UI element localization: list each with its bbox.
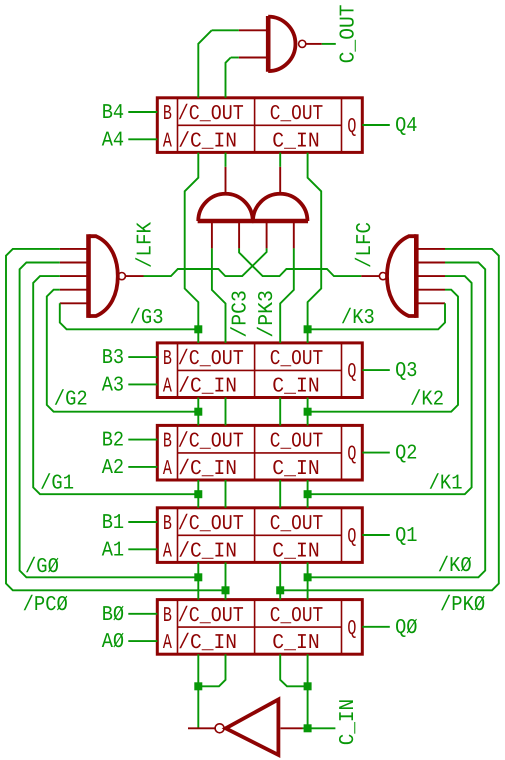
right AND gate U7B input pin a [266, 221, 268, 248]
svg-text:/G1: /G1 [40, 473, 74, 496]
wire U4 /C_IN-a to U7A out [225, 153, 227, 167]
wire Q1 output [362, 534, 390, 536]
wire U0 C_IN-a down to inverter in [307, 654, 309, 728]
junction node 10 [276, 586, 284, 594]
wire A4 input [128, 138, 157, 140]
wire /LFC in4 / K2 rail [308, 290, 458, 412]
NAND gate U8 /LFK (5-input, faces right) [89, 236, 118, 316]
svg-text:Q1: Q1 [395, 525, 417, 548]
wire /LFC in2 / K0 rail [308, 263, 486, 578]
svg-text:A1: A1 [102, 539, 124, 562]
wire Q0 output [362, 626, 390, 628]
wire A3 input [128, 383, 157, 385]
svg-text:A: A [163, 632, 172, 655]
svg-text:C_OUT: C_OUT [270, 513, 323, 536]
junction node 1 [194, 325, 202, 333]
junction node 4 [304, 408, 312, 416]
wire B0 input [128, 613, 157, 615]
full-adder slice U3 (bit 3) body [157, 343, 362, 398]
wire A0 input [128, 640, 157, 642]
junction node 2 [304, 325, 312, 333]
U6 input pin 2 [239, 57, 268, 59]
U9 input pin 5 [416, 302, 445, 304]
NAND gate U6 (C_OUT driver) [268, 17, 295, 72]
wire /LFK out to U7B in-a (crossing) [144, 248, 267, 276]
wire U6 in1 [212, 29, 239, 31]
svg-text:/C_OUT: /C_OUT [178, 431, 244, 454]
svg-text:B: B [163, 348, 172, 371]
wire carry bus vertical [197, 562, 199, 599]
U8 output pin [125, 275, 143, 277]
wire U6 in2 [231, 57, 239, 59]
svg-text:Q2: Q2 [395, 443, 417, 466]
wire /LFC in1 / PK0 rail [280, 249, 499, 590]
wire /PC net U4-U3 (jogged) [185, 153, 199, 343]
wire /LFC out to U7A in-b (crossing) [239, 248, 361, 276]
wire B1 input [128, 521, 157, 523]
svg-text:/LFC: /LFC [354, 222, 377, 268]
wire U6 in2 down [226, 58, 231, 98]
wire carry bus vertical [279, 480, 281, 508]
svg-text:A: A [163, 540, 172, 563]
svg-text:/C_IN: /C_IN [178, 540, 237, 563]
U8 input pin 2 [60, 262, 89, 264]
svg-text:B: B [163, 103, 172, 126]
svg-text:/C_IN: /C_IN [178, 458, 237, 481]
full-adder slice U1 (bit 1) body [157, 508, 362, 563]
junction node 9 [222, 586, 230, 594]
svg-text:/KØ: /KØ [438, 555, 472, 578]
junction node 7 [194, 573, 202, 581]
junction node 12 [304, 682, 312, 690]
U8 input pin 1 [60, 248, 89, 250]
svg-text:A4: A4 [102, 129, 124, 152]
wire carry bus vertical [197, 398, 199, 426]
wire /LFK in3 / G1 rail [33, 276, 198, 494]
full-adder slice U2 (bit 2) body [157, 425, 362, 480]
wire /LFC in5 / K3 rail [308, 303, 445, 329]
svg-text:/G3: /G3 [130, 307, 164, 330]
junction node 8 [304, 573, 312, 581]
wire U0 /C_IN-b join [198, 654, 225, 686]
svg-text:C_OUT: C_OUT [270, 103, 323, 126]
wire carry bus vertical [279, 562, 281, 599]
svg-text:C_OUT: C_OUT [270, 605, 323, 628]
wire inverter input / C_IN [303, 727, 336, 729]
U10 output pin [188, 727, 216, 729]
svg-text:B: B [163, 513, 172, 536]
junction node 11 [194, 682, 202, 690]
wire /LFK in5 / G3 rail [60, 303, 199, 329]
svg-text:/PCØ: /PCØ [23, 594, 68, 617]
svg-text:C_IN: C_IN [272, 458, 319, 481]
U10 input pin [281, 727, 303, 729]
svg-text:/C_IN: /C_IN [178, 130, 237, 153]
junction node 13 [304, 724, 312, 732]
U9 input pin 3 [416, 275, 445, 277]
svg-text:B4: B4 [102, 102, 124, 125]
U9 output pin [361, 275, 379, 277]
svg-text:A: A [163, 130, 172, 153]
wire U7B in-b to U3 top [280, 248, 294, 343]
left AND gate U7A input pin b [238, 221, 240, 248]
wire carry bus vertical [279, 398, 281, 426]
svg-text:B3: B3 [102, 347, 124, 370]
svg-text:C_OUT: C_OUT [270, 348, 323, 371]
U9 input pin 1 [416, 248, 445, 250]
wire A2 input [128, 466, 157, 468]
left AND gate U7A output pin [225, 167, 227, 194]
svg-text:/PKØ: /PKØ [440, 594, 485, 617]
svg-text:A: A [163, 375, 172, 398]
wire carry bus vertical [197, 480, 199, 508]
svg-text:/G2: /G2 [54, 389, 88, 412]
left AND gate U7A (points up) [198, 194, 253, 221]
full-adder slice U4 (bit 4) body [157, 98, 362, 153]
wire /LFC in3 / K1 rail [308, 276, 472, 494]
U8 input pin 3 [60, 275, 89, 277]
junction node 5 [194, 490, 202, 498]
svg-text:/C_OUT: /C_OUT [178, 103, 244, 126]
svg-text:Q: Q [347, 444, 356, 467]
svg-text:A3: A3 [102, 374, 124, 397]
wire carry bus vertical [225, 398, 227, 426]
U8 input pin 5 [60, 302, 89, 304]
svg-text:Q: Q [347, 526, 356, 549]
svg-text:C_IN: C_IN [272, 540, 319, 563]
svg-text:A2: A2 [102, 457, 124, 480]
svg-text:A: A [163, 458, 172, 481]
svg-text:Q: Q [347, 618, 356, 641]
wire /LFK in1 / PC0 rail [6, 249, 226, 590]
svg-text:C_IN: C_IN [272, 632, 319, 655]
full-adder slice U0 (bit 0) body [157, 600, 362, 655]
wire /PK net U4-U3 (jogged) [308, 153, 322, 343]
wire carry bus vertical [307, 398, 309, 426]
wire carry bus vertical [307, 480, 309, 508]
svg-text:/C_OUT: /C_OUT [178, 513, 244, 536]
svg-text:B1: B1 [102, 512, 124, 535]
svg-text:BØ: BØ [102, 604, 124, 627]
svg-text:C_IN: C_IN [272, 130, 319, 153]
svg-text:C_OUT: C_OUT [338, 4, 361, 63]
svg-text:Q3: Q3 [395, 360, 417, 383]
wire Q2 output [362, 452, 390, 454]
wire U4 C_IN-a to U7B out [279, 153, 281, 167]
U9 input pin 4 [416, 289, 445, 291]
wire B3 input [128, 356, 157, 358]
svg-text:Q4: Q4 [395, 115, 417, 138]
U9 input pin 2 [416, 262, 445, 264]
wire U0 /C_IN-a down to inverter out [197, 654, 199, 728]
right AND gate U7B input pin b [293, 221, 295, 248]
wire carry bus vertical [225, 562, 227, 599]
svg-text:C_IN: C_IN [272, 375, 319, 398]
wire U6 in1 down to U4 /C_OUT [198, 30, 211, 98]
svg-text:/C_IN: /C_IN [178, 632, 237, 655]
wire /LFK in4 / G2 rail [47, 290, 199, 412]
svg-text:/GØ: /GØ [25, 556, 59, 579]
right AND gate U7B (points up) [253, 194, 308, 221]
svg-text:C_IN: C_IN [337, 699, 360, 746]
svg-text:/PC3: /PC3 [230, 290, 253, 338]
svg-text:Q: Q [347, 361, 356, 384]
wire U0 C_IN-b join [280, 654, 307, 686]
junction node 6 [304, 490, 312, 498]
junction node 3 [194, 408, 202, 416]
wire /LFK in2 / G0 rail [20, 263, 199, 578]
wire U6 out to C_OUT [322, 43, 336, 45]
svg-text:/PK3: /PK3 [256, 290, 279, 338]
right AND gate U7B output pin [279, 167, 281, 194]
svg-text:AØ: AØ [102, 631, 124, 654]
U6 output pin [306, 43, 322, 45]
wire U7A in-a to U3 top [212, 248, 226, 343]
svg-text:/K2: /K2 [410, 389, 444, 412]
wire Q3 output [362, 369, 390, 371]
inverter U10 (faces left) [226, 699, 279, 755]
svg-text:/C_OUT: /C_OUT [178, 348, 244, 371]
left AND gate U7A input pin a [211, 221, 213, 248]
wire B4 input [128, 111, 157, 113]
svg-text:QØ: QØ [395, 617, 417, 640]
NAND gate U9 /LFC (5-input, faces left) [387, 236, 416, 316]
wire A1 input [128, 548, 157, 550]
svg-text:/C_OUT: /C_OUT [178, 605, 244, 628]
svg-text:B2: B2 [102, 430, 124, 453]
svg-text:C_OUT: C_OUT [270, 431, 323, 454]
U8 input pin 4 [60, 289, 89, 291]
svg-text:B: B [163, 605, 172, 628]
wire Q4 output [362, 124, 390, 126]
svg-text:Q: Q [347, 116, 356, 139]
svg-text:/K1: /K1 [429, 473, 463, 496]
svg-text:/C_IN: /C_IN [178, 375, 237, 398]
svg-text:B: B [163, 431, 172, 454]
wire carry bus vertical [225, 480, 227, 508]
wire B2 input [128, 439, 157, 441]
U6 input pin 1 [239, 29, 268, 31]
svg-text:/LFK: /LFK [134, 222, 157, 268]
svg-text:/K3: /K3 [341, 307, 375, 330]
wire carry bus vertical [307, 562, 309, 599]
